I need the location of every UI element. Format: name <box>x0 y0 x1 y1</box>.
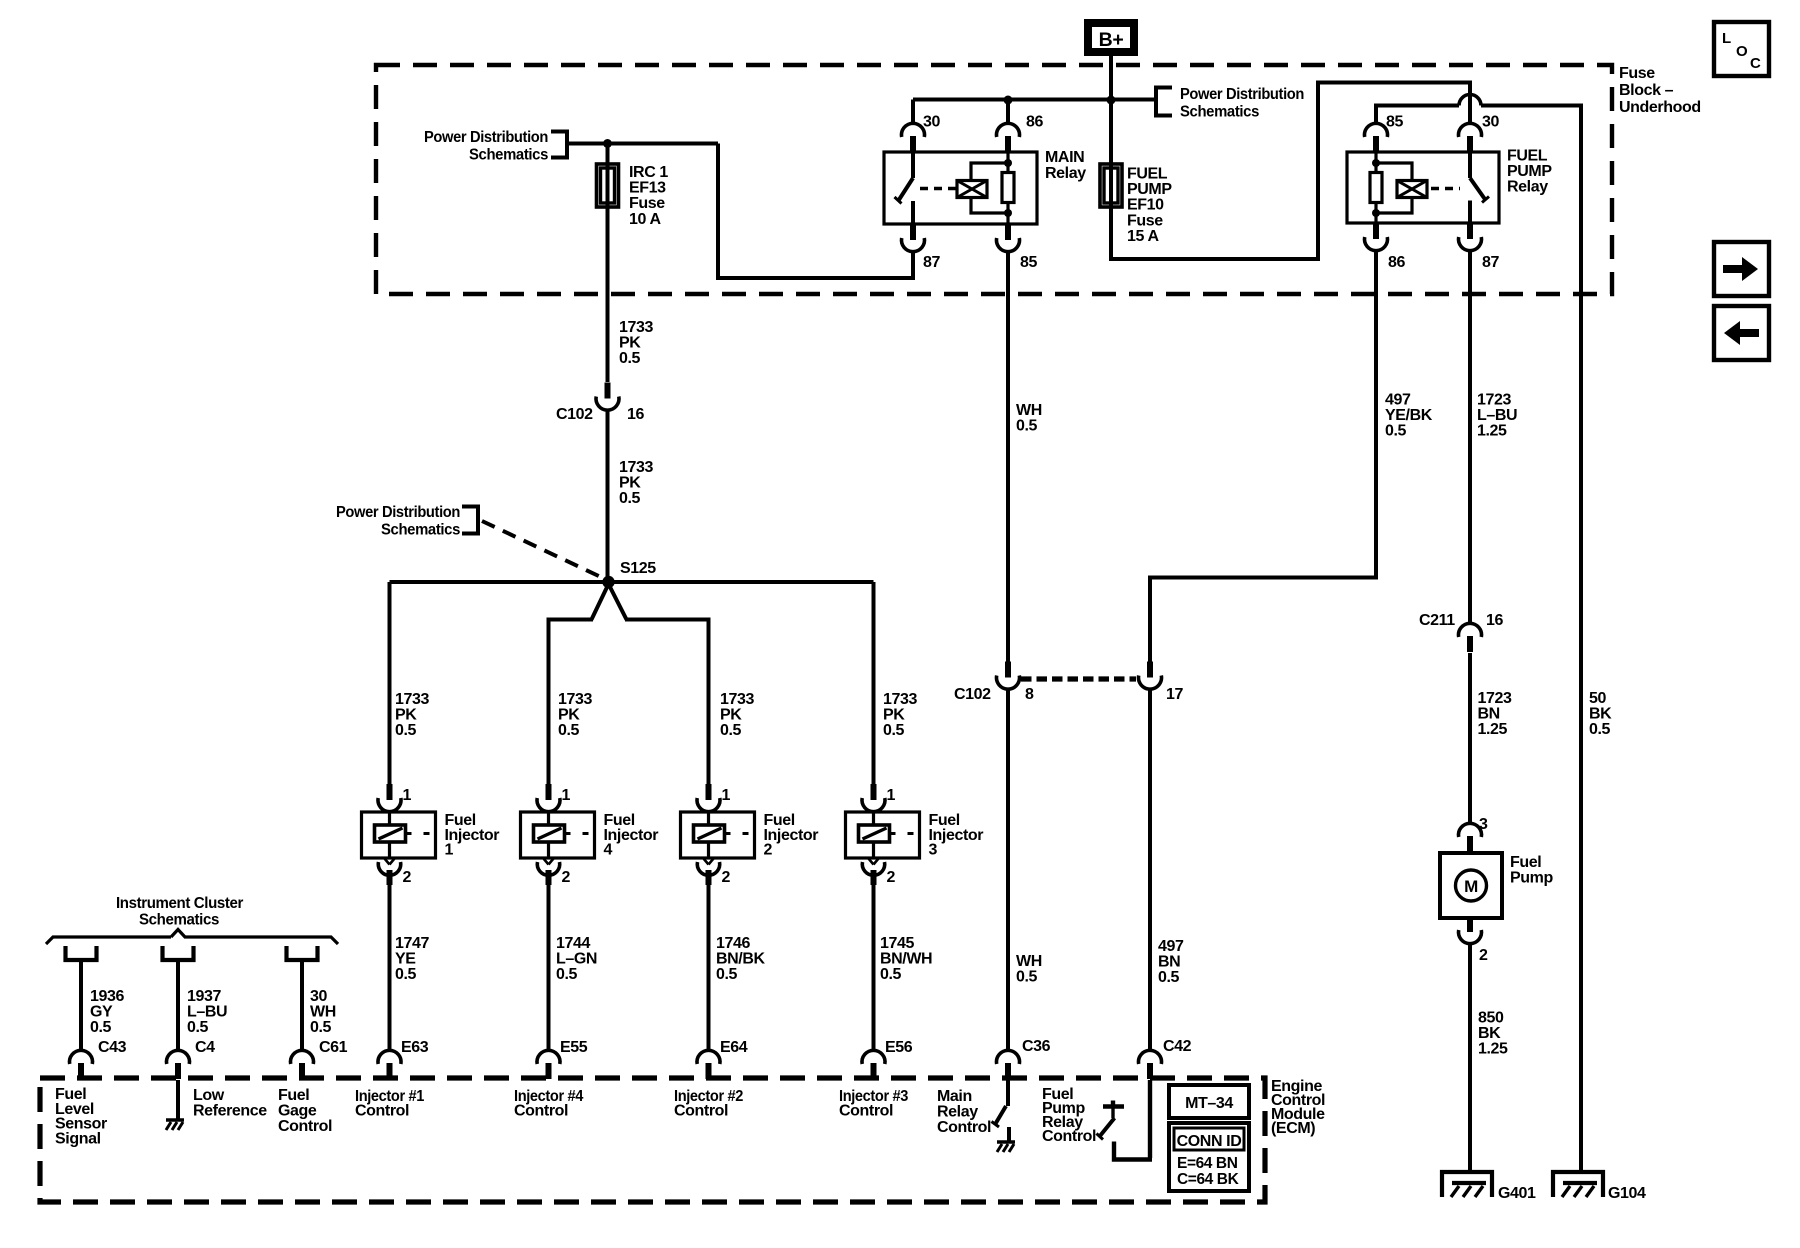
svg-text:E64: E64 <box>720 1039 748 1056</box>
switch contact main relay <box>911 152 915 178</box>
svg-text:Control: Control <box>937 1119 991 1136</box>
svg-text:YE/BK: YE/BK <box>1385 407 1433 424</box>
svg-text:YE: YE <box>395 951 416 968</box>
svg-text:0.5: 0.5 <box>556 966 578 983</box>
svg-text:0.5: 0.5 <box>1158 969 1180 986</box>
fuel pump motor <box>1440 853 1502 918</box>
ground G401 <box>1442 1172 1492 1197</box>
svg-text:Relay: Relay <box>1507 179 1548 196</box>
node junction IRC1 fuse tap <box>603 139 612 148</box>
svg-text:PK: PK <box>395 707 417 724</box>
wire IRC1 fuse down to C102-16 <box>606 207 610 382</box>
coil link dashes main relay <box>920 187 956 190</box>
pin 86 main relay <box>1006 100 1010 124</box>
tag bracket Power Distribution Schematics (middle) <box>462 507 478 534</box>
wire injector 3 to ECM <box>872 885 876 1051</box>
svg-text:4: 4 <box>604 842 613 859</box>
svg-text:0.5: 0.5 <box>1589 721 1611 738</box>
svg-text:Signal: Signal <box>55 1130 101 1147</box>
wire main relay pin85 to C102-8 <box>1006 251 1010 662</box>
svg-text:0.5: 0.5 <box>1016 418 1038 435</box>
svg-text:PUMP: PUMP <box>1507 163 1552 180</box>
svg-text:497: 497 <box>1385 392 1411 409</box>
svg-text:BN: BN <box>1478 706 1500 723</box>
arrow next box <box>1714 242 1769 296</box>
svg-text:1723: 1723 <box>1478 690 1512 707</box>
svg-text:1936: 1936 <box>90 988 124 1005</box>
node coil junction bottom <box>1372 209 1380 217</box>
svg-text:30: 30 <box>310 988 327 1005</box>
svg-text:Reference: Reference <box>193 1103 267 1120</box>
svg-text:1733: 1733 <box>883 691 917 708</box>
node junction B+ / feed bus <box>1107 96 1116 105</box>
svg-text:0.5: 0.5 <box>395 722 417 739</box>
wire B+ down to junction <box>1109 56 1113 163</box>
svg-text:0.5: 0.5 <box>1016 969 1038 986</box>
svg-text:0.5: 0.5 <box>90 1019 112 1036</box>
fuse block underhood dashed box <box>376 65 1612 294</box>
wire C61 to ECM <box>300 960 304 1051</box>
wire injector 2 to ECM <box>707 885 711 1051</box>
svg-text:E63: E63 <box>401 1039 429 1056</box>
wire injector 1 to ECM <box>388 885 392 1051</box>
instrument cluster connector bracket C43 <box>66 946 97 960</box>
wire pin85 riser to ground bus with hop over pin30 riser <box>1376 106 1459 124</box>
wire fuel pump relay pin87 to C211 <box>1468 250 1472 623</box>
pin 85 fuel pump relay <box>1365 123 1388 152</box>
svg-text:2: 2 <box>403 869 412 886</box>
wire C4 to ECM <box>176 960 180 1051</box>
wire dashed tag to S125 <box>482 521 604 579</box>
svg-text:Schematics: Schematics <box>381 522 460 539</box>
svg-text:Fuse: Fuse <box>1619 65 1655 82</box>
fuel injector 3 <box>846 812 920 858</box>
svg-text:C42: C42 <box>1163 1038 1192 1055</box>
svg-text:16: 16 <box>627 406 644 423</box>
wire feed to main relay pin 87 <box>718 144 913 279</box>
svg-text:C102: C102 <box>556 406 593 423</box>
svg-text:Gage: Gage <box>278 1103 317 1120</box>
svg-text:1.25: 1.25 <box>1478 721 1508 738</box>
svg-text:1746: 1746 <box>716 935 750 952</box>
svg-text:E=64 BN: E=64 BN <box>1177 1155 1238 1172</box>
svg-text:WH: WH <box>310 1004 336 1021</box>
svg-text:0.5: 0.5 <box>558 722 580 739</box>
svg-text:1733: 1733 <box>619 319 653 336</box>
svg-text:Block –: Block – <box>1619 82 1674 99</box>
svg-text:1: 1 <box>562 787 571 804</box>
node S125 splice <box>602 576 614 588</box>
svg-text:10 A: 10 A <box>629 211 661 228</box>
fuse IRC 1 EF13 10A <box>597 164 619 207</box>
relay FUEL PUMP Relay box <box>1347 152 1499 223</box>
injector pin 2 connector (inj 4) <box>537 859 559 886</box>
svg-text:1733: 1733 <box>720 691 754 708</box>
injector pin 1 connector (inj 2) <box>697 784 720 812</box>
svg-text:Fuse: Fuse <box>629 195 665 212</box>
pin 30 main relay <box>911 100 915 124</box>
svg-text:0.5: 0.5 <box>619 490 641 507</box>
LOC legend box <box>1714 22 1769 76</box>
svg-text:2: 2 <box>887 869 896 886</box>
svg-text:L–BU: L–BU <box>1477 407 1517 424</box>
svg-text:Control: Control <box>839 1103 893 1120</box>
fuse FUEL PUMP EF10 15A <box>1100 164 1122 207</box>
svg-text:86: 86 <box>1026 114 1043 131</box>
svg-text:PK: PK <box>558 707 580 724</box>
ground low reference <box>176 1080 180 1119</box>
svg-text:GY: GY <box>90 1004 113 1021</box>
svg-text:8: 8 <box>1025 686 1034 703</box>
arrow back box <box>1714 306 1769 360</box>
svg-text:PK: PK <box>619 475 641 492</box>
svg-text:2: 2 <box>562 869 571 886</box>
resistor main relay <box>1002 173 1014 203</box>
svg-text:L–BU: L–BU <box>187 1004 227 1021</box>
svg-text:1: 1 <box>403 787 412 804</box>
instrument cluster brace <box>46 930 338 945</box>
wire coil loop fuel pump relay <box>1376 163 1412 213</box>
svg-text:1745: 1745 <box>880 935 914 952</box>
svg-text:1: 1 <box>722 787 731 804</box>
resistor fuel pump relay <box>1370 173 1382 203</box>
svg-text:2: 2 <box>722 869 731 886</box>
coil link dashes fuel pump relay <box>1431 187 1460 190</box>
svg-text:BN/BK: BN/BK <box>716 951 766 968</box>
svg-text:Fuel: Fuel <box>1510 854 1541 871</box>
svg-text:Relay: Relay <box>1045 165 1086 182</box>
svg-text:Fuse: Fuse <box>1127 212 1163 229</box>
svg-text:Instrument Cluster: Instrument Cluster <box>116 895 243 912</box>
svg-text:C43: C43 <box>98 1039 127 1056</box>
fuel injector 2 <box>681 812 755 858</box>
wire coil loop main relay <box>971 163 1008 213</box>
MT-34 reference box <box>1169 1085 1249 1118</box>
svg-text:Pump: Pump <box>1510 870 1553 887</box>
svg-text:FUEL: FUEL <box>1507 148 1548 165</box>
node coil top junction <box>1004 159 1012 167</box>
svg-text:0.5: 0.5 <box>716 966 738 983</box>
ground G104 <box>1553 1172 1603 1197</box>
svg-text:G104: G104 <box>1608 1185 1646 1202</box>
svg-text:87: 87 <box>1482 254 1499 271</box>
svg-text:C102: C102 <box>954 686 991 703</box>
wire S125 branch injector 2 <box>609 584 709 784</box>
svg-text:C36: C36 <box>1022 1038 1051 1055</box>
switch fuel pump relay control <box>1103 1104 1124 1108</box>
pin 87 main relay <box>902 224 925 252</box>
wire C102-8 to C36 <box>1006 689 1010 1051</box>
wire tag to IRC1 fuse top node <box>567 142 718 146</box>
coil fuel pump relay <box>1397 181 1427 198</box>
tag bracket Power Distribution Schematics (top left) <box>551 132 567 158</box>
svg-text:FUEL: FUEL <box>1127 166 1168 183</box>
svg-text:C4: C4 <box>195 1039 215 1056</box>
svg-text:CONN ID: CONN ID <box>1177 1133 1242 1150</box>
wire S125 branch injector 4 <box>549 584 609 784</box>
svg-text:O: O <box>1736 43 1748 60</box>
engine control module dashed box <box>40 1078 1265 1202</box>
svg-text:Control: Control <box>1042 1128 1096 1145</box>
fuel pump pin 3 connector <box>1459 823 1482 852</box>
svg-text:3: 3 <box>1479 816 1488 833</box>
pin 30 fuel pump relay <box>1459 123 1482 152</box>
svg-text:1.25: 1.25 <box>1477 423 1507 440</box>
svg-text:1744: 1744 <box>556 935 590 952</box>
injector pin 2 connector (inj 1) <box>378 859 400 886</box>
svg-text:1733: 1733 <box>395 691 429 708</box>
svg-text:0.5: 0.5 <box>880 966 902 983</box>
svg-text:E55: E55 <box>560 1039 588 1056</box>
pin 86 fuel pump relay <box>1365 223 1388 251</box>
wire EF10 fuse to fuel pump relay pin 30 <box>1111 83 1470 260</box>
svg-text:50: 50 <box>1589 690 1606 707</box>
svg-text:Control: Control <box>278 1118 332 1135</box>
switch main relay control with ground <box>1006 1080 1010 1106</box>
node coil junction top <box>1372 159 1380 167</box>
svg-text:E56: E56 <box>885 1039 913 1056</box>
svg-text:M: M <box>1464 877 1478 896</box>
svg-text:C211: C211 <box>1419 612 1455 629</box>
B+ battery feed terminal <box>1088 23 1134 52</box>
instrument cluster connector bracket C4 <box>163 946 194 960</box>
svg-text:L–GN: L–GN <box>556 951 597 968</box>
fuel injector 1 <box>362 812 436 858</box>
svg-text:0.5: 0.5 <box>619 350 641 367</box>
switch contact fuel pump relay <box>1468 152 1472 178</box>
wire injector 4 to ECM <box>547 885 551 1051</box>
svg-text:C: C <box>1750 55 1761 72</box>
svg-text:Control: Control <box>355 1103 409 1120</box>
connector C102 pin 16 <box>596 383 619 411</box>
svg-text:16: 16 <box>1486 612 1503 629</box>
svg-text:(ECM): (ECM) <box>1271 1120 1315 1137</box>
svg-text:1723: 1723 <box>1477 392 1511 409</box>
injector pin 1 connector (inj 3) <box>862 784 885 812</box>
wire C42 hook to switch <box>1114 1080 1152 1160</box>
wire S125 branch injector 3 <box>872 582 876 784</box>
svg-text:86: 86 <box>1388 254 1405 271</box>
svg-text:Control: Control <box>514 1103 568 1120</box>
fuel injector 4 <box>521 812 595 858</box>
svg-text:1: 1 <box>445 842 454 859</box>
wire S125 branch injector 1 <box>388 582 392 784</box>
svg-text:Control: Control <box>674 1103 728 1120</box>
svg-text:Power Distribution: Power Distribution <box>1180 86 1304 103</box>
svg-text:EF13: EF13 <box>629 180 666 197</box>
svg-text:1733: 1733 <box>619 459 653 476</box>
pin 85 main relay <box>997 224 1020 252</box>
svg-text:3: 3 <box>929 842 938 859</box>
svg-text:L: L <box>1722 30 1731 47</box>
svg-text:87: 87 <box>923 254 940 271</box>
svg-text:Power Distribution: Power Distribution <box>336 504 460 521</box>
svg-text:17: 17 <box>1166 686 1183 703</box>
svg-text:PK: PK <box>883 707 905 724</box>
svg-text:1: 1 <box>887 787 896 804</box>
injector pin 1 connector (inj 4) <box>537 784 560 812</box>
wire fuel pump relay pin86 to C102-17 <box>1150 250 1376 662</box>
svg-text:PK: PK <box>619 335 641 352</box>
svg-text:Low: Low <box>193 1087 225 1104</box>
fuel pump pin 2 connector <box>1459 916 1482 944</box>
CONN ID box <box>1169 1123 1249 1191</box>
svg-text:BN/WH: BN/WH <box>880 951 932 968</box>
svg-text:Power Distribution: Power Distribution <box>424 129 548 146</box>
svg-text:C=64 BK: C=64 BK <box>1177 1171 1240 1188</box>
wire C43 to ECM <box>79 960 83 1051</box>
svg-text:1747: 1747 <box>395 935 429 952</box>
injector pin 2 connector (inj 2) <box>697 859 719 886</box>
wire C211 to fuel pump <box>1468 653 1472 823</box>
svg-text:497: 497 <box>1158 938 1184 955</box>
svg-text:Fuel: Fuel <box>278 1087 309 1104</box>
svg-text:Schematics: Schematics <box>139 912 219 929</box>
svg-text:WH: WH <box>1016 953 1042 970</box>
svg-text:MAIN: MAIN <box>1045 149 1084 166</box>
svg-text:0.5: 0.5 <box>883 722 905 739</box>
connector C102 pin 8 <box>997 662 1020 690</box>
tag bracket Power Distribution Schematics (top right) <box>1156 88 1172 116</box>
wire dashed C102 connector link <box>1021 676 1136 681</box>
svg-text:Schematics: Schematics <box>1180 104 1259 121</box>
svg-text:PK: PK <box>720 707 742 724</box>
svg-text:C61: C61 <box>319 1039 348 1056</box>
svg-text:1733: 1733 <box>558 691 592 708</box>
svg-text:BK: BK <box>1478 1025 1501 1042</box>
connector C102 pin 17 <box>1139 662 1162 690</box>
svg-text:0.5: 0.5 <box>395 966 417 983</box>
svg-text:85: 85 <box>1020 254 1037 271</box>
svg-text:1.25: 1.25 <box>1478 1041 1508 1058</box>
svg-text:850: 850 <box>1478 1010 1504 1027</box>
svg-text:30: 30 <box>1482 114 1499 131</box>
connector C211 pin 16 <box>1459 623 1482 652</box>
svg-text:BK: BK <box>1589 706 1612 723</box>
svg-text:Schematics: Schematics <box>469 147 548 164</box>
wire C102-17 to C42 <box>1148 689 1152 1051</box>
svg-text:Underhood: Underhood <box>1619 99 1701 116</box>
svg-text:0.5: 0.5 <box>310 1019 332 1036</box>
wire C102-16 to S125 <box>606 410 610 579</box>
svg-text:EF10: EF10 <box>1127 197 1164 214</box>
injector pin 1 connector (inj 1) <box>378 784 401 812</box>
svg-text:WH: WH <box>1016 402 1042 419</box>
instrument cluster connector bracket C61 <box>287 946 318 960</box>
svg-text:15 A: 15 A <box>1127 228 1159 245</box>
wire S125 bus <box>390 580 874 584</box>
svg-text:S125: S125 <box>620 560 656 577</box>
wire fuel pump to G401 <box>1468 943 1472 1171</box>
svg-text:0.5: 0.5 <box>720 722 742 739</box>
relay MAIN Relay box <box>884 152 1037 224</box>
svg-text:30: 30 <box>923 114 940 131</box>
svg-text:IRC 1: IRC 1 <box>629 164 668 181</box>
node junction pin86 riser <box>1004 96 1013 105</box>
svg-text:0.5: 0.5 <box>187 1019 209 1036</box>
svg-text:85: 85 <box>1386 114 1403 131</box>
node coil bottom junction <box>1004 209 1012 217</box>
coil main relay <box>957 181 987 198</box>
svg-text:PUMP: PUMP <box>1127 181 1172 198</box>
svg-text:1937: 1937 <box>187 988 221 1005</box>
svg-text:B+: B+ <box>1099 29 1124 51</box>
pin 87 fuel pump relay <box>1459 223 1482 251</box>
svg-text:2: 2 <box>764 842 773 859</box>
wire feed bus y=99 to Power Distribution tag <box>913 98 1155 102</box>
svg-text:G401: G401 <box>1498 1185 1536 1202</box>
svg-text:2: 2 <box>1479 947 1488 964</box>
svg-text:BN: BN <box>1158 954 1180 971</box>
svg-text:MT–34: MT–34 <box>1185 1095 1233 1112</box>
injector pin 2 connector (inj 3) <box>862 859 884 886</box>
svg-text:0.5: 0.5 <box>1385 423 1407 440</box>
